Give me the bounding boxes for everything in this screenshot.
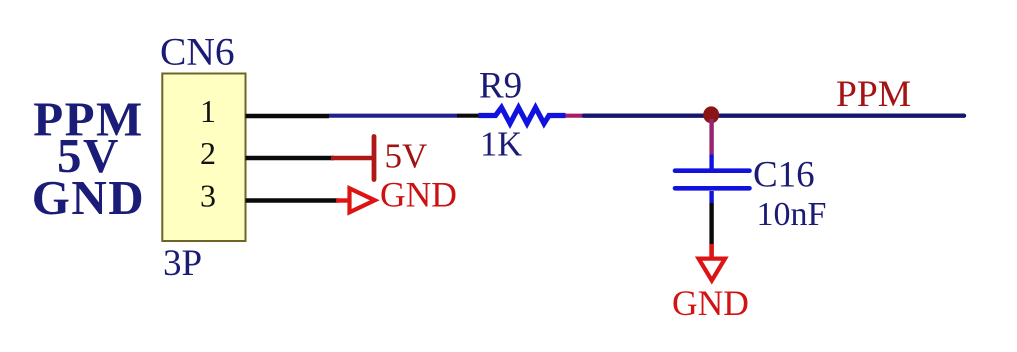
svg-text:3: 3 <box>200 178 216 214</box>
wire node to capacitor magenta stub <box>709 119 713 155</box>
wire navy net PPM <box>584 113 964 117</box>
capacitor C16 bottom plate <box>675 186 750 191</box>
ground arrow pin3 <box>350 188 375 212</box>
svg-text:PPM: PPM <box>836 74 911 115</box>
wire pin2 black segment <box>246 156 335 160</box>
wire pin1 black segment 2 <box>457 114 479 118</box>
svg-text:1: 1 <box>200 93 216 129</box>
wire magenta segment after resistor <box>566 114 585 118</box>
junction node dot <box>703 106 719 123</box>
wire pin1 black segment <box>246 114 330 118</box>
capacitor C16 top plate <box>675 168 750 173</box>
resistor R9 <box>479 108 566 124</box>
svg-text:GND: GND <box>672 283 749 323</box>
wire capacitor black segment <box>709 203 713 244</box>
svg-text:10nF: 10nF <box>757 196 827 233</box>
wire pin3 red segment <box>336 198 350 202</box>
svg-text:GND: GND <box>380 175 457 215</box>
ground arrow under capacitor <box>699 259 725 281</box>
wire capacitor blue stub bottom <box>709 191 713 203</box>
power bar 5V <box>372 137 377 180</box>
svg-text:2: 2 <box>200 135 216 171</box>
ground red stub under capacitor <box>709 244 714 258</box>
svg-text:5V: 5V <box>385 137 428 176</box>
svg-text:GND: GND <box>32 170 145 225</box>
wire capacitor blue stub top <box>709 155 713 170</box>
svg-text:C16: C16 <box>753 155 815 196</box>
wire pin2 dark red segment <box>331 156 372 161</box>
svg-text:1K: 1K <box>480 126 522 164</box>
svg-text:3P: 3P <box>163 243 202 284</box>
svg-text:R9: R9 <box>479 66 522 107</box>
svg-text:CN6: CN6 <box>160 30 235 74</box>
wire pin3 black segment <box>246 198 339 202</box>
wire pin1 blue segment <box>329 114 457 118</box>
connector CN6 body <box>162 74 245 242</box>
